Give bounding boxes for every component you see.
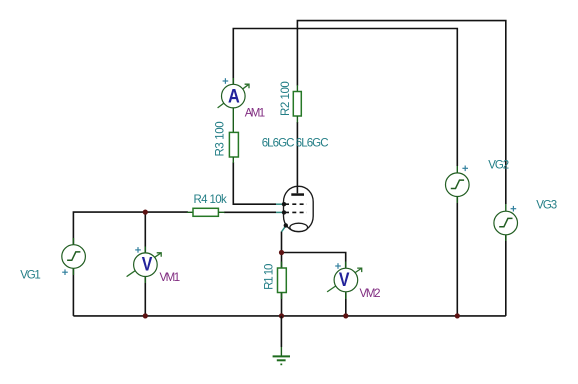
wire top rail AM1 to VG2	[233, 29, 457, 167]
svg-text:VM1: VM1	[160, 272, 181, 284]
wire junction to VM2	[282, 253, 346, 269]
node control grid	[282, 210, 286, 214]
wire VG1 bottom	[72, 268, 74, 316]
node cathode junction	[279, 250, 284, 255]
wire R3 bottom to tube screen grid	[233, 162, 276, 204]
source VG1	[62, 238, 86, 275]
wire VM1 vertical	[144, 212, 146, 253]
svg-text:6L6GC 6L6GC: 6L6GC 6L6GC	[262, 138, 329, 150]
wire R2 bottom to tube plate	[296, 122, 298, 187]
node cathode	[284, 223, 288, 227]
svg-text:V: V	[339, 270, 350, 291]
svg-text:V: V	[142, 255, 153, 276]
wire junction to R1	[281, 253, 283, 269]
node screen grid	[282, 202, 286, 206]
node R1 bottom	[279, 313, 284, 318]
voltmeter VM1	[127, 247, 162, 284]
svg-text:A: A	[228, 87, 240, 108]
node VM2 bottom	[343, 313, 348, 318]
node R4/VM1 junction	[143, 210, 148, 215]
wire top rail R2 to VG3	[297, 21, 505, 204]
svg-text:VG3: VG3	[536, 200, 557, 212]
tube U1 6L6GC	[282, 186, 314, 231]
wire VG3 bottom	[505, 235, 507, 316]
source VG3	[494, 204, 518, 241]
svg-text:R3 100: R3 100	[215, 121, 227, 156]
node VG2 bottom	[455, 313, 460, 318]
svg-text:AM1: AM1	[245, 108, 265, 120]
resistor R4	[187, 208, 225, 216]
svg-text:VM2: VM2	[360, 288, 381, 300]
wire R1 bottom	[281, 293, 283, 316]
wire VG1 to R4 input	[73, 212, 188, 245]
wire VM2 bottom	[345, 292, 347, 316]
lead AM1 to R3	[232, 108, 234, 132]
voltmeter VM2	[327, 262, 362, 300]
resistor R3	[229, 132, 238, 157]
svg-text:R1 10: R1 10	[264, 264, 276, 290]
wire R4 to tube control grid	[224, 211, 276, 213]
svg-text:VG1: VG1	[20, 269, 41, 281]
source VG2	[446, 166, 470, 204]
wire bottom rail	[73, 315, 505, 317]
wire VG2 bottom	[456, 196, 458, 316]
wire cathode down to junction	[281, 232, 283, 253]
svg-text:R2 100: R2 100	[280, 81, 292, 116]
resistor R2	[293, 85, 301, 123]
node VM1 bottom	[143, 313, 148, 318]
ammeter AM1	[218, 78, 249, 108]
ground	[273, 316, 290, 365]
svg-text:R4 10k: R4 10k	[194, 194, 227, 206]
tube pin stub screen grid	[276, 203, 284, 205]
tube pin stub control grid	[276, 211, 284, 213]
lead R3 bottom	[232, 157, 234, 163]
resistor R1	[278, 262, 287, 300]
svg-text:VG2: VG2	[488, 160, 509, 172]
